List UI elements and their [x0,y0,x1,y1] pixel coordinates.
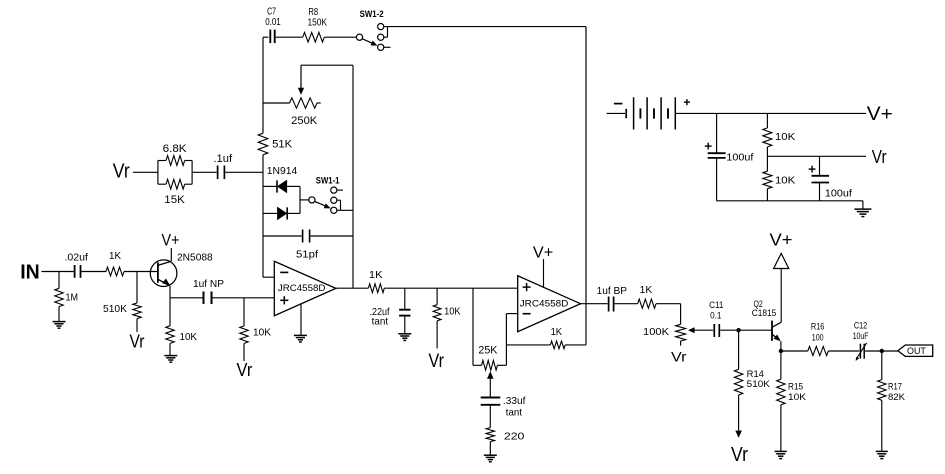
wire diode top rail [263,185,277,187]
transistor Q1 2N5088 [150,252,213,287]
svg-text:510K: 510K [747,379,771,389]
wire 250K wiper to right box vertical [301,64,353,66]
switch SW1-1 [309,176,343,214]
svg-text:V+: V+ [867,103,893,125]
svg-text:82K: 82K [888,392,906,402]
potentiometer 25K [478,345,498,371]
wire right box vertical [352,65,354,288]
label V+ above Q1 [162,231,180,250]
svg-text:1uf NP: 1uf NP [193,278,224,290]
svg-text:1N914: 1N914 [267,165,298,177]
potentiometer 100K [643,324,686,345]
plus sign 100uf Vr [809,166,816,173]
svg-text:V+: V+ [770,230,793,250]
svg-text:OUT: OUT [907,346,926,357]
wire feedback right up [565,304,586,345]
resistor 1M to ground [55,272,78,322]
svg-text:Vr: Vr [429,351,445,372]
resistor 10K to Vr (plus input) [240,298,271,361]
capacitor 1uf BP [597,285,628,312]
wire feedback left [506,344,550,346]
svg-text:1K: 1K [109,250,121,262]
svg-text:1K: 1K [369,269,383,281]
wire op2 V+ stem [543,259,545,287]
ground under Q1 10K [164,356,177,363]
wire op2 output [581,303,608,305]
resistor 10K divider top [763,113,795,171]
diode D2 1N914 (points right) [278,207,300,219]
label V+ above Q2 [770,230,793,250]
svg-text:150K: 150K [308,17,328,29]
svg-text:6.8K: 6.8K [163,143,188,155]
resistor 1K post op2 [638,284,656,308]
wire emitter row to R16 [781,350,808,352]
wire 1uf NP to opamp plus [213,297,275,299]
svg-text:10K: 10K [253,326,271,338]
wire Q1 collector to V+ [170,248,172,261]
svg-text:V+: V+ [533,245,553,262]
resistor R8 150K [303,6,327,42]
svg-text:SW1-2: SW1-2 [360,9,384,19]
wire battery negative stub [607,112,626,114]
wire op1 1K to op2 plus [384,287,517,289]
resistor R15 10K to ground [777,351,807,451]
resistor 1K post op1 [368,269,384,293]
svg-text:C12: C12 [854,320,867,330]
capacitor .1uf [213,153,233,179]
junction dot R17 node [880,349,884,353]
switch SW1-2 [356,9,390,51]
svg-text:C1815: C1815 [752,308,777,318]
wire Vr to parallel combo [133,171,158,173]
wire C7 to R8 [276,36,303,38]
svg-text:SW1-1: SW1-1 [316,176,340,186]
wire 220 to ground [489,442,491,455]
label V+ rail [867,103,893,125]
ground under 220 [484,455,497,462]
svg-text:Vr: Vr [671,349,687,365]
svg-text:100: 100 [812,333,824,343]
svg-text:R17: R17 [888,381,902,391]
svg-text:R16: R16 [811,322,825,332]
label Vr under 10K [237,360,253,380]
label Vr mid [429,351,445,372]
svg-text:R15: R15 [788,382,803,392]
svg-text:.02uf: .02uf [65,252,89,264]
resistor 15K parallel bottom [158,161,192,206]
node IN label [20,260,40,283]
wire Q2 collector to V+ [780,269,782,323]
V+ terminal triangle Q2 [774,253,789,268]
svg-text:1K: 1K [551,326,562,338]
label Vr under 510K [130,332,145,352]
capacitor .33uf tant [481,395,526,419]
svg-text:10K: 10K [775,131,795,143]
wire 250K rail [263,102,290,104]
wire branch down to 25K [472,288,474,365]
resistor 1K feedback [550,326,565,349]
resistor 10K to Vr (mid) [433,288,460,348]
wire .1uf to main vertical [225,171,263,173]
svg-text:1M: 1M [66,292,79,304]
wire 1K to base node [124,271,158,273]
wire diode bottom rail [263,212,277,214]
resistor 510K to Vr [103,272,141,333]
battery B1 [626,97,675,129]
op-amp U1 JRC4558D [274,261,336,315]
wiper arrow 250K [298,65,304,95]
svg-text:.33uf: .33uf [503,395,526,407]
svg-text:10uF: 10uF [853,331,869,341]
wire C12 to OUT [865,350,898,352]
ground under .22uf [398,334,411,341]
svg-text:51K: 51K [272,138,293,150]
junction dot base node [736,328,740,332]
wire diode box right vertical [299,186,301,213]
svg-text:JRC4558D: JRC4558D [520,298,569,308]
resistor 1K input [106,250,124,276]
capacitor 100uf filter Vr [812,156,852,201]
potentiometer 250K [290,98,321,127]
wire minus input op2 [506,313,517,315]
transistor Q2 C1815 [752,299,781,341]
svg-text:220: 220 [504,430,525,442]
svg-text:V+: V+ [162,231,180,250]
ground under 1M [53,322,66,329]
resistor R16 100 [808,322,829,356]
wire 51pf rail left [263,235,302,237]
svg-text:tant: tant [372,316,389,328]
resistor 10K divider bottom [763,171,795,201]
capacitor .22uf tant to ground [370,288,411,333]
wire 25K right up to minus node [497,314,506,366]
svg-text:2N5088: 2N5088 [177,252,213,264]
svg-text:IN: IN [20,260,40,283]
wiper arrow 100K [688,327,713,333]
wire Q1 emitter down [169,286,171,298]
svg-text:Vr: Vr [113,160,130,182]
capacitor C12 10uF [853,320,869,361]
ground op1 [294,335,307,342]
wire 1K to 100K pot [656,304,681,325]
svg-text:10K: 10K [180,331,198,343]
ground power supply [854,209,871,217]
svg-text:JRC4558D: JRC4558D [278,283,326,293]
wire .02uf to 1K [82,271,107,273]
op-amp U2 JRC4558D [518,276,581,332]
ground under R15 [775,451,787,458]
svg-text:R14: R14 [747,369,764,379]
capacitor 1uf NP [193,278,224,304]
wire op1 ground stem [300,304,302,335]
resistor 6.8K parallel top [158,143,192,184]
wire IN to .02uf [42,271,74,273]
OUT tag [898,345,933,357]
svg-text:10K: 10K [788,392,807,402]
svg-text:25K: 25K [478,345,498,357]
wire diode box to SW1-1 pole [300,199,309,201]
resistor 51K [258,133,293,155]
wire vertical 51K to minus node [262,155,264,277]
svg-text:10K: 10K [775,174,795,186]
svg-text:Vr: Vr [237,360,253,380]
label Vr rail [872,146,887,167]
wire op1 output [336,287,369,289]
svg-text:Vr: Vr [872,146,887,167]
resistor R17 82K to ground [878,351,906,451]
capacitor C7 0.01 [265,6,281,43]
svg-text:Vr: Vr [130,332,145,352]
wire 25K left [473,364,482,366]
label Vr under R14 [731,444,748,466]
wire emitter row to 1uf NP [170,297,203,299]
ground under R17 [876,451,888,458]
wire minus input op1 [263,276,274,278]
wire .33uf to 220 [489,405,491,428]
svg-text:100K: 100K [643,326,669,338]
wire 51pf rail right [311,235,353,237]
wire Vr rail [767,155,866,157]
svg-text:100uf: 100uf [825,188,852,200]
svg-text:.1uf: .1uf [213,153,233,165]
label V+ above op2 [533,245,553,262]
battery minus sign [614,103,623,105]
wire SW1-1 to right box vertical [337,209,353,211]
wire V+ rail [675,112,866,114]
capacitor C11 0.1 [709,300,723,337]
svg-text:15K: 15K [164,194,185,206]
svg-text:tant: tant [506,406,522,418]
capacitor 51pf [296,230,318,261]
wire C7 left stub [263,36,268,38]
wire Q2 emitter down [780,341,782,351]
junction dot emitter node [779,349,783,353]
svg-text:10K: 10K [444,306,461,318]
arrow down to Vr (R14) [735,431,742,438]
resistor 10K emitter to ground [166,298,197,356]
wire combo to .1uf [192,171,217,173]
capacitor .02uf [65,252,89,278]
label Vr bias left [113,160,130,182]
wire power bottom rail [717,201,863,209]
svg-text:1uf BP: 1uf BP [597,285,628,297]
wire SW1-2 to right vertical net [384,27,586,304]
svg-text:510K: 510K [103,303,127,315]
plus sign 100uf V+ [705,143,712,150]
wire R16 to C12 [828,350,859,352]
svg-text:Vr: Vr [731,444,748,466]
capacitor 100uf filter V+ [708,113,754,200]
wire C11 to Q2 base [720,329,772,331]
battery plus sign [684,99,690,105]
wire main left vertical (C7 node down) [262,37,264,133]
svg-text:C11: C11 [709,300,723,310]
wiper arrow 25K [487,371,494,397]
svg-text:0.1: 0.1 [710,311,721,321]
label Vr under 100K [671,349,687,365]
svg-text:0.01: 0.01 [265,16,281,28]
svg-text:250K: 250K [291,115,318,127]
diode D1 1N914 (points left) [267,165,300,193]
svg-text:100uf: 100uf [726,151,753,163]
svg-text:1K: 1K [640,284,653,296]
resistor R14 510K to Vr [734,330,770,430]
wire R8 to SW1-2 pole [324,36,356,38]
wire 1uf BP to 1K [615,303,638,305]
svg-text:51pf: 51pf [296,248,318,260]
resistor 220 [486,428,524,443]
